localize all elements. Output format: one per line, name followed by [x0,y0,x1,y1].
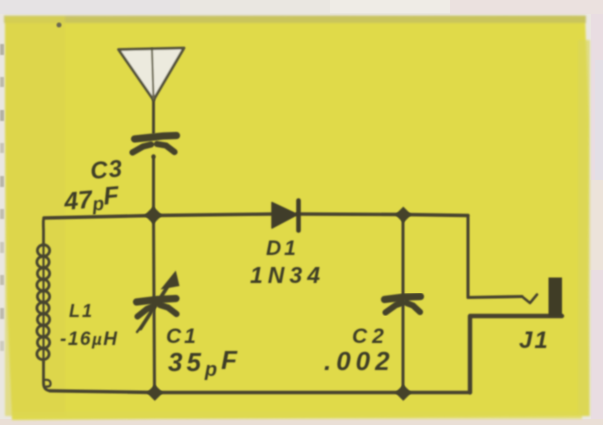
wire: top bus [44,214,274,218]
svg-text:C2: C2 [352,325,389,348]
wire: left branch vertical (inductor lead) [42,218,45,244]
variable capacitor C1 [137,271,180,333]
svg-text:1N34: 1N34 [250,262,325,288]
wire: jack tip contact [522,295,537,304]
node: junction bottom bus / C2 branch [395,385,411,401]
capacitor C2 [385,297,421,313]
antenna [119,48,185,100]
wire: C2 branch vertical [402,215,405,393]
wire: right vertical to jack tip [468,216,522,298]
svg-text:C3: C3 [89,155,124,185]
wire: bottom right vertical to jack sleeve [470,316,562,393]
svg-text:.002: .002 [324,346,395,376]
svg-text:-16µH: -16µH [60,329,119,350]
jack J1 sleeve bar [549,278,563,317]
svg-text:L1: L1 [69,301,94,321]
node: junction bottom bus / C1 branch [147,385,163,401]
diode D1 [272,201,299,231]
wire: bottom bus [50,391,470,393]
capacitor C3 [133,136,177,159]
node: junction top bus / C2 branch [395,207,411,223]
svg-text:D1: D1 [266,237,299,260]
node: junction top bus / C3-C1 branch [144,206,162,224]
wire: antenna feed + C1/C3 branch vertical [152,49,154,99]
svg-text:J1: J1 [519,327,550,354]
scan artifacts on left margin [0,44,4,55]
wire: top bus right of diode [297,214,468,216]
svg-text:C1: C1 [166,325,199,348]
inductor L1 coil loops [37,244,50,362]
